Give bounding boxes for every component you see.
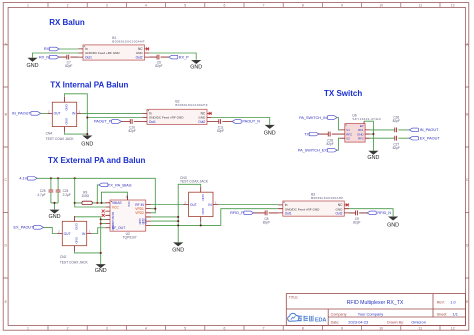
svg-text:RX_N: RX_N <box>39 55 49 59</box>
junction (rail gnd1) <box>177 216 179 218</box>
port EX_PAOUT (right) <box>409 136 440 140</box>
junction (CN3 gnd) <box>200 224 202 226</box>
svg-text:TEST COAX JACK: TEST COAX JACK <box>60 261 89 265</box>
wire U6.RF2 to C27 to EX_PAOUT <box>370 137 410 139</box>
svg-text:RF2: RF2 <box>358 136 364 140</box>
balun B1 <box>78 45 149 60</box>
frame row ticks left <box>3 45 8 278</box>
wire B2.Out2 to C11 to PAOUT_N <box>212 121 232 123</box>
EDA logo cloud <box>288 313 300 321</box>
svg-text:Out2: Out2 <box>136 55 143 59</box>
capacitor C25 <box>37 189 53 197</box>
wire CN4 bottom GND to rail <box>64 132 87 134</box>
svg-text:CN2: CN2 <box>60 255 67 259</box>
svg-text:PAOUT_P: PAOUT_P <box>94 120 112 124</box>
port TX_PA_BIAS <box>99 182 132 187</box>
svg-text:Your Company: Your Company <box>358 311 384 316</box>
capacitor C24 <box>56 189 71 197</box>
svg-text:Out2: Out2 <box>335 212 342 216</box>
wire CN4 top GND loop to rail <box>64 94 87 136</box>
rf switch U6 <box>340 121 370 142</box>
svg-text:6: 6 <box>223 326 225 330</box>
svg-text:Sheet:: Sheet: <box>437 312 448 316</box>
svg-text:IN_PAOUT: IN_PAOUT <box>12 112 31 116</box>
svg-text:1: 1 <box>27 326 29 330</box>
svg-text:7: 7 <box>263 3 265 7</box>
wire PAOUT_P to C10 to B2.Out1 <box>121 121 142 123</box>
svg-text:7: 7 <box>263 326 265 330</box>
svg-text:TX_PA_BIAS: TX_PA_BIAS <box>108 182 132 187</box>
balun B3 <box>278 201 349 216</box>
svg-text:4: 4 <box>145 326 147 330</box>
svg-text:VCC: VCC <box>127 201 131 207</box>
svg-text:2: 2 <box>67 3 69 7</box>
svg-text:82pF: 82pF <box>393 146 400 150</box>
wire CN2.IN to U2.RF_OUT <box>92 228 106 234</box>
svg-text:REV:: REV: <box>437 301 445 305</box>
svg-text:EX_PAOUT: EX_PAOUT <box>420 136 441 140</box>
svg-text:GND: GND <box>75 223 79 229</box>
svg-text:3: 3 <box>106 326 108 330</box>
port IN_PAOUT (right) <box>409 128 439 132</box>
svg-text:1.0: 1.0 <box>450 300 456 305</box>
svg-text:GND: GND <box>264 130 276 136</box>
junction (rail gnd3) <box>177 224 179 226</box>
svg-text:B0069L5U0100AHF: B0069L5U0100AHF <box>311 196 343 200</box>
junction (U2 gnd b) <box>100 223 102 225</box>
svg-text:9: 9 <box>341 3 343 7</box>
svg-text:RX Balun: RX Balun <box>49 18 85 27</box>
wire CN2 bottom GND to rail <box>75 251 101 253</box>
svg-text:Drawn By:: Drawn By: <box>387 321 404 325</box>
svg-text:B0069L5U0100AHF: B0069L5U0100AHF <box>112 40 144 44</box>
svg-text:RX_P: RX_P <box>179 55 189 59</box>
ground (U6) <box>367 151 379 161</box>
port EX_PAOUT (left) <box>14 226 44 230</box>
svg-text:EX_PAOUT: EX_PAOUT <box>14 226 35 230</box>
wire 4.1V down to VCC row <box>75 178 106 207</box>
wire U2.VPD1 VPD2 tie to 4.1V <box>151 209 155 213</box>
svg-text:RFID_N: RFID_N <box>377 211 391 215</box>
ground (RX left) <box>27 58 39 69</box>
junction (U6 gnd) <box>372 133 374 135</box>
frame row letters <box>4 43 469 304</box>
port RFID_P <box>230 211 254 215</box>
svg-text:10: 10 <box>379 3 383 7</box>
junction (R9 right / VBIAS) <box>96 202 98 204</box>
capacitor C28 <box>326 132 333 146</box>
svg-text:GND: GND <box>367 155 379 161</box>
svg-text:Out1: Out1 <box>149 120 156 124</box>
no-connect B1.NC <box>146 47 149 50</box>
no-connect U2 pin4 <box>102 214 105 217</box>
svg-text:GND: GND <box>201 194 205 200</box>
svg-text:GND: GND <box>81 142 93 148</box>
junction (CN2 gnd) <box>100 252 102 254</box>
svg-text:6: 6 <box>223 3 225 7</box>
junction (R9 left) <box>74 202 76 204</box>
svg-text:9: 9 <box>341 326 343 330</box>
wire RFID_P to C8 to B3.Out1 <box>254 212 278 214</box>
svg-text:GND: GND <box>172 248 184 254</box>
svg-text:4.7μF: 4.7μF <box>37 193 45 197</box>
svg-text:GND: GND <box>49 214 61 220</box>
wire U2.RF_IN to CN3.OUT <box>151 204 184 206</box>
amplifier U2 <box>105 194 151 231</box>
gnd rail left of U2 <box>75 217 101 264</box>
junction (VCC tap) <box>74 177 76 179</box>
svg-text:82pF: 82pF <box>128 129 135 133</box>
frame row ticks right <box>465 45 468 278</box>
svg-text:GND: GND <box>65 104 69 110</box>
svg-text:12: 12 <box>451 326 455 330</box>
port PA_SWITCH_EX <box>298 148 337 152</box>
svg-text:TEST COAX JACK: TEST COAX JACK <box>180 180 209 184</box>
svg-text:EP: EP <box>360 124 364 128</box>
svg-text:82pF: 82pF <box>155 64 162 68</box>
wire B3 right GND to ground <box>349 209 393 217</box>
svg-text:2.2μF: 2.2μF <box>63 193 71 197</box>
wire CN3 bottom GND to bus <box>200 222 202 226</box>
resistor R9 <box>81 191 92 205</box>
svg-text:4.1V: 4.1V <box>19 177 27 181</box>
junction (U2 gnd a) <box>100 218 102 220</box>
svg-text:GND: GND <box>190 65 202 71</box>
svg-text:TQP9107: TQP9107 <box>123 235 137 239</box>
capacitor C7 <box>65 55 72 68</box>
svg-text:RFID_P: RFID_P <box>230 211 244 215</box>
svg-text:TX Internal PA Balun: TX Internal PA Balun <box>50 81 128 90</box>
wire TX to C28 to U6.RFC <box>319 133 340 135</box>
capacitor C10 <box>128 119 135 133</box>
junction (loop tap) <box>100 202 102 204</box>
balun B2 <box>142 109 211 124</box>
port RX <box>44 47 59 51</box>
capacitor C11 <box>217 119 224 133</box>
wire U6.EP to gnd rail <box>364 121 373 150</box>
wire GND to B1 left GND pin <box>33 53 79 58</box>
wire CN4.IN to B2.In <box>82 112 143 114</box>
junction (C24 tap) <box>57 177 59 179</box>
svg-text:EDA: EDA <box>315 317 327 323</box>
coax jack CN3 <box>184 187 219 222</box>
wire gnd bus to B3 <box>151 209 278 226</box>
port RX_P <box>169 55 190 59</box>
svg-text:IN_PAOUT: IN_PAOUT <box>420 128 439 132</box>
svg-text:VPD2: VPD2 <box>135 211 144 215</box>
no-connect B2.NC <box>209 112 212 115</box>
port TX <box>304 132 319 136</box>
svg-text:V2: V2 <box>346 136 350 140</box>
svg-text:Omicron: Omicron <box>411 320 426 325</box>
port RX_N <box>39 55 59 59</box>
svg-text:4: 4 <box>145 3 147 7</box>
port PAOUT_P <box>94 120 121 124</box>
capacitor C8 <box>263 211 270 225</box>
svg-text:5: 5 <box>184 3 186 7</box>
ground (CN4) <box>81 136 93 148</box>
title block outline <box>286 294 465 326</box>
svg-text:82pF: 82pF <box>263 220 270 224</box>
junction (CN4 gnd rail) <box>86 133 88 135</box>
svg-text:100Ω: 100Ω <box>81 194 89 198</box>
svg-text:PA_SWITCH_EX: PA_SWITCH_EX <box>298 149 328 153</box>
svg-text:OUT: OUT <box>190 203 197 207</box>
wire 4.1V power rail <box>37 178 155 208</box>
wire PA_SWITCH_EX to U6.V2 <box>337 138 340 150</box>
wire IN_PAOUT to CN4.OUT <box>41 112 48 114</box>
wire CN3.IN to B3.In <box>218 204 278 206</box>
svg-text:8: 8 <box>302 326 304 330</box>
svg-text:GND: GND <box>95 268 107 274</box>
svg-text:Out1: Out1 <box>285 212 292 216</box>
svg-text:Out1: Out1 <box>85 55 92 59</box>
svg-text:RX: RX <box>44 47 50 51</box>
junction (cap gnd) <box>53 202 55 204</box>
wire C24 branch <box>57 178 59 203</box>
EDA logo CJK glyph strokes <box>298 316 314 322</box>
no-connect B3.NC <box>346 203 349 206</box>
svg-text:B0069L5U0100AHF: B0069L5U0100AHF <box>175 103 207 107</box>
svg-text:Out2: Out2 <box>198 120 205 124</box>
svg-text:2: 2 <box>67 326 69 330</box>
svg-text:OUT: OUT <box>54 112 61 116</box>
port IN_PAOUT <box>12 112 41 116</box>
wire TX_PA_BIAS down to R9 output <box>97 185 98 203</box>
svg-text:TX Switch: TX Switch <box>324 89 362 98</box>
ground (CN3 rail) <box>172 242 184 253</box>
svg-text:82pF: 82pF <box>65 64 72 68</box>
svg-text:PAOUT_N: PAOUT_N <box>242 120 260 124</box>
svg-text:3: 3 <box>106 3 108 7</box>
svg-text:TITLE:: TITLE: <box>289 295 299 299</box>
port 4.1V <box>19 177 37 181</box>
wire R9 row to U2.VBIAS <box>75 202 106 204</box>
capacitor C26 <box>393 116 400 133</box>
svg-text:TEST COAX JACK: TEST COAX JACK <box>46 137 75 141</box>
svg-text:5: 5 <box>184 326 186 330</box>
frame column ticks bottom <box>48 326 440 331</box>
svg-text:82pF: 82pF <box>353 220 360 224</box>
port RFID_N <box>367 211 391 215</box>
wire PA_SWITCH_IN to U6.V1 <box>337 118 340 130</box>
svg-text:RFID Multiplexer RX_TX: RFID Multiplexer RX_TX <box>347 300 404 306</box>
capacitor C9 <box>353 211 360 225</box>
wire U6.GND to rail <box>370 133 374 135</box>
svg-text:82pF: 82pF <box>393 119 400 123</box>
svg-text:Date:: Date: <box>331 321 340 325</box>
wire B3.Out2 to C9 to RFID_N <box>349 212 367 214</box>
wire B1 right GND pin to ground <box>149 53 196 60</box>
frame column ticks top <box>48 3 440 8</box>
ground (C25 C24) <box>49 210 61 221</box>
svg-text:11: 11 <box>419 326 423 330</box>
svg-text:82pF: 82pF <box>326 142 333 146</box>
svg-text:82pF: 82pF <box>217 129 224 133</box>
svg-text:GND: GND <box>65 118 69 124</box>
svg-text:8: 8 <box>302 3 304 7</box>
junction (rail gnd2) <box>177 220 179 222</box>
svg-text:10: 10 <box>379 326 383 330</box>
wire U2 left GND pins to rail <box>101 219 106 223</box>
wire RX to B1.In <box>59 48 78 50</box>
svg-text:12: 12 <box>451 3 455 7</box>
ground (B3 right) <box>387 217 399 229</box>
coax jack CN2 <box>57 216 92 251</box>
wire VCC bypass loop to U2 top pin <box>102 192 128 203</box>
svg-text:Company:: Company: <box>331 312 348 316</box>
wire RX_N to C7 to B1.Out1 <box>59 56 78 58</box>
svg-text:GND: GND <box>144 218 148 224</box>
ground (RX right) <box>190 60 202 71</box>
svg-text:TX External PA and Balun: TX External PA and Balun <box>48 156 145 165</box>
wire caps to ground <box>51 203 58 210</box>
svg-text:1: 1 <box>27 3 29 7</box>
wire B1.Out2 to C6 to RX_P <box>149 56 168 58</box>
svg-text:GND: GND <box>27 63 39 69</box>
svg-text:GND: GND <box>201 208 205 214</box>
wire U6.RF1 to C26 to IN_PAOUT <box>370 129 410 131</box>
wire B2 right GND to ground <box>212 118 270 125</box>
junction (C25 tap) <box>50 177 52 179</box>
svg-text:VCC: VCC <box>112 205 120 209</box>
svg-text:CN4: CN4 <box>46 132 53 136</box>
ground (U2 left rail) <box>95 264 107 274</box>
svg-text:2023-04-23: 2023-04-23 <box>348 320 368 325</box>
svg-text:11: 11 <box>419 3 423 7</box>
svg-text:GND: GND <box>387 222 399 228</box>
wire EX_PAOUT to CN2.OUT <box>44 227 58 233</box>
svg-text:RF_OUT: RF_OUT <box>112 226 125 230</box>
svg-text:OUT: OUT <box>64 232 71 236</box>
capacitor C27 <box>393 136 400 150</box>
svg-text:GND: GND <box>75 237 79 243</box>
wire gnd rail to B2 left GND pin <box>87 117 142 119</box>
svg-text:TX: TX <box>304 132 309 136</box>
junction (gnd tap) <box>86 116 88 118</box>
coax jack CN4 <box>47 97 82 132</box>
wire U2 right GND pins to rail <box>151 217 178 221</box>
svg-text:SKY13421-374LF: SKY13421-374LF <box>352 117 381 121</box>
port PA_SWITCH_IN <box>299 116 337 120</box>
svg-text:PA_SWITCH_IN: PA_SWITCH_IN <box>299 116 327 120</box>
ground (B2 right) <box>264 125 276 136</box>
capacitor C6 <box>155 55 162 68</box>
wire C25 branch <box>50 178 52 203</box>
port PAOUT_N <box>232 120 260 124</box>
junction (VPD tie) <box>154 208 156 210</box>
wire CN3 top GND loop to rail <box>178 184 201 242</box>
svg-text:1/1: 1/1 <box>453 311 458 316</box>
no-connect U2 pin3 <box>102 210 105 213</box>
